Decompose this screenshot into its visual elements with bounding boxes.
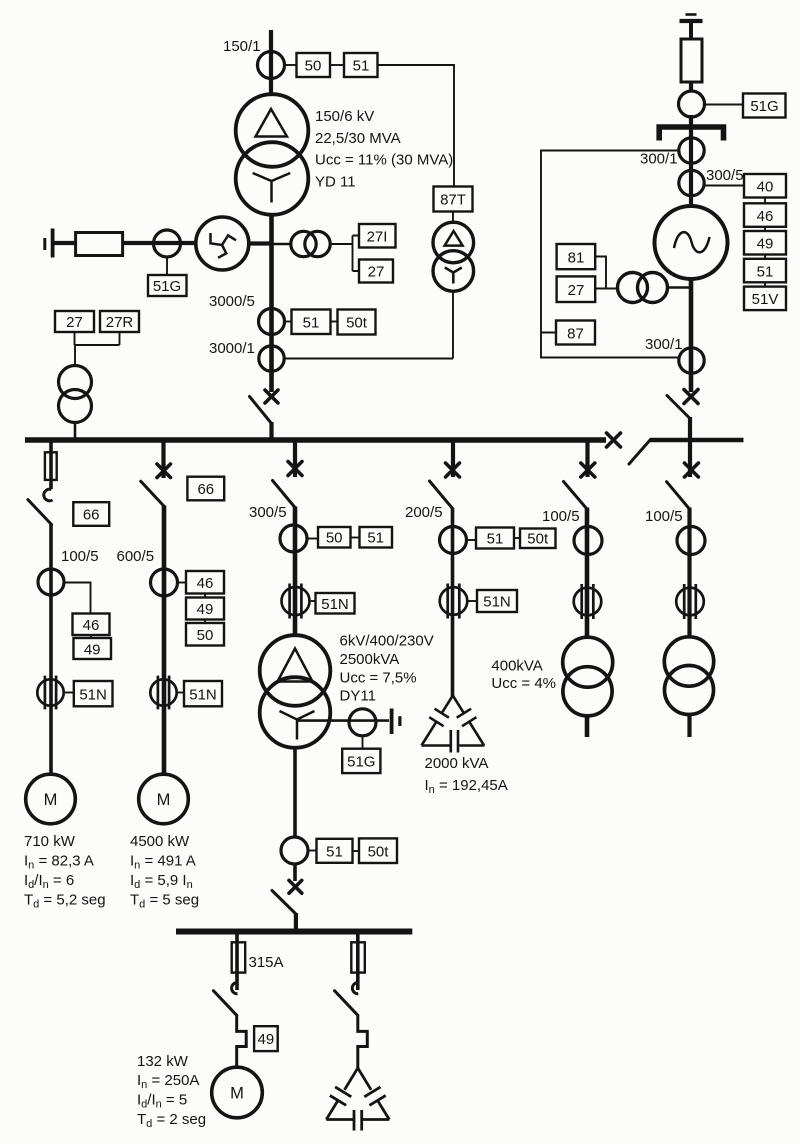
svg-text:2000 kVA: 2000 kVA (425, 755, 489, 772)
label motor M2 data (130, 833, 199, 911)
svg-text:132 kW: 132 kW (137, 1053, 189, 1070)
svg-text:27R: 27R (106, 314, 134, 331)
relay 46 feeder1 (73, 614, 110, 636)
wire 51 to 51V (764, 282, 766, 286)
CT generator neutral (679, 91, 705, 117)
svg-text:710 kW: 710 kW (24, 833, 76, 850)
motor M3 (212, 1067, 263, 1118)
breaker X generator (684, 390, 698, 404)
svg-text:Id = 5,9 In: Id = 5,9 In (130, 872, 193, 891)
svg-text:81: 81 (568, 250, 585, 267)
wire generator VT tap (667, 286, 691, 289)
svg-text:22,5/30 MVA: 22,5/30 MVA (315, 130, 401, 147)
svg-text:300/1: 300/1 (640, 151, 678, 168)
transformer T2 2500kVA (260, 635, 331, 748)
breaker X feeder4 (446, 463, 460, 477)
delta winding T2 (278, 649, 313, 682)
CT feeder3 lower (281, 837, 308, 864)
wire to breaker X lower (293, 864, 297, 881)
wire feeder1 from busbar through fuse (49, 441, 53, 489)
svg-text:Ucc = 4%: Ucc = 4% (491, 675, 556, 692)
label T3 data (491, 658, 556, 693)
CT feeder1 (38, 569, 64, 595)
svg-text:Ucc = 11% (30 MVA): Ucc = 11% (30 MVA) (315, 152, 453, 169)
wire blade to busbar2 (294, 913, 298, 930)
relay 87T (434, 187, 473, 212)
relay 49 feeder2 (186, 598, 224, 620)
svg-text:100/5: 100/5 (645, 508, 683, 525)
svg-text:50: 50 (326, 530, 343, 547)
svg-text:In = 491 A: In = 491 A (130, 853, 196, 872)
CT 300/1 gen breaker (679, 348, 704, 373)
relay 51N feeder2 (184, 681, 222, 706)
wire feeder6 to transformer T4 (687, 508, 691, 738)
wire earthing transformer to main (249, 241, 271, 245)
svg-text:M: M (157, 791, 171, 809)
motor M1 (26, 774, 76, 824)
wire feeder3 to transformer T2 (293, 507, 298, 638)
ground T2 neutral (392, 709, 400, 735)
CT feeder4 (440, 527, 467, 554)
relay 27 bus (55, 311, 94, 332)
relay 51G T2 (342, 749, 380, 773)
relay 81 (557, 244, 596, 269)
wire feeder4 to capacitor (451, 508, 455, 697)
relay 50t lower (359, 838, 397, 863)
wire resistor to earthing transformer (122, 241, 200, 245)
breaker X feeder2 (157, 464, 171, 478)
relay 50 feeder2 (186, 623, 224, 646)
wire feeder2 to motor (162, 506, 167, 776)
svg-text:2500kVA: 2500kVA (340, 651, 400, 668)
zero sequence CT feeder5 (574, 584, 602, 619)
svg-text:40: 40 (757, 179, 774, 196)
wire feeder3 stub (293, 441, 297, 477)
svg-text:51: 51 (326, 844, 343, 861)
wire feeder4 stub (451, 441, 455, 477)
wire to relay 51N feeder3 (310, 600, 316, 602)
svg-text:46: 46 (83, 617, 100, 634)
disconnect blade feederB (335, 991, 358, 1016)
svg-text:YD 11: YD 11 (315, 174, 356, 191)
ground neutral resistor (45, 229, 53, 258)
wire CT to relay 46 feeder2 (178, 582, 187, 584)
label T1 data (315, 108, 453, 191)
relay 51G generator (743, 94, 786, 118)
relay 49 feederA (254, 1026, 278, 1051)
svg-text:49: 49 (197, 601, 214, 618)
label motor M1 data (24, 833, 106, 911)
breaker X feeder3 (288, 462, 302, 476)
label motor M3 data (137, 1053, 206, 1130)
svg-text:51V: 51V (752, 291, 779, 308)
svg-text:6kV/400/230V: 6kV/400/230V (340, 633, 434, 650)
svg-text:50t: 50t (527, 531, 549, 548)
delta winding aux (445, 231, 463, 246)
zero sequence CT feeder4 (440, 584, 468, 619)
CT T2 neutral (349, 709, 376, 736)
relay 51N feeder3 (316, 593, 355, 614)
relay 51 gen (744, 259, 786, 283)
svg-text:51: 51 (353, 58, 370, 75)
wire feeder1 to motor (49, 524, 53, 776)
svg-text:51N: 51N (79, 687, 107, 704)
svg-text:51: 51 (757, 263, 774, 280)
svg-text:87T: 87T (440, 192, 466, 209)
transformer T1 150/6 kV (236, 94, 309, 215)
svg-text:46: 46 (757, 208, 774, 225)
svg-text:51: 51 (367, 530, 384, 547)
relay 51 (344, 53, 378, 77)
relay 51N feeder4 (477, 590, 517, 612)
wire ground to resistor (54, 241, 78, 245)
wire CT to relay 40 (704, 185, 744, 187)
VT generator pair (618, 273, 668, 303)
svg-text:27: 27 (66, 314, 83, 331)
svg-text:51G: 51G (347, 754, 375, 771)
svg-text:400kVA: 400kVA (491, 658, 542, 675)
svg-text:DY11: DY11 (340, 688, 376, 705)
disconnect blade lower (272, 891, 296, 915)
bracket generator neutral bar (659, 127, 723, 141)
auxiliary transformer 87T (433, 222, 474, 291)
relay 51 incomer (292, 310, 331, 335)
disconnect blade feeder4 (430, 481, 453, 509)
transformer T4 (664, 637, 713, 715)
bus tie blade open (629, 440, 651, 465)
wire blade to right busbar (688, 417, 692, 438)
wire CT to relay 51G (166, 257, 168, 275)
svg-text:In = 192,45A: In = 192,45A (425, 777, 508, 796)
wire CT to relay 51G gen (705, 104, 744, 106)
bus tie X (607, 433, 621, 447)
wire 51 to 50t lower (353, 850, 360, 852)
svg-text:600/5: 600/5 (117, 548, 155, 565)
wire to relay 51N feeder4 (467, 600, 477, 602)
svg-text:200/5: 200/5 (405, 504, 443, 521)
svg-text:87: 87 (567, 326, 584, 343)
svg-text:4500 kW: 4500 kW (130, 833, 190, 850)
busbar 6kV left section (25, 437, 606, 443)
svg-text:50: 50 (197, 627, 214, 644)
wire bottom feederA through fuse (235, 935, 239, 991)
svg-text:3000/5: 3000/5 (209, 293, 255, 310)
generator G (655, 206, 728, 279)
CT feeder2 (151, 569, 178, 596)
resistor generator neutral (681, 39, 702, 82)
wire feeder5 to transformer T3 (585, 508, 590, 738)
wire and thermal element feederB (358, 1015, 368, 1069)
wire 51 to 50t feeder4 (514, 537, 520, 539)
svg-text:300/1: 300/1 (645, 336, 683, 353)
hook contact feeder1 (44, 489, 53, 501)
disconnect blade feeder1 (28, 500, 52, 525)
capacitor bank delta 2000kVA (422, 696, 485, 753)
relay 50 (297, 53, 331, 77)
VT 6kV pair (291, 231, 330, 256)
wire relay 51 to 87T zone (378, 65, 455, 187)
wire 50 to 51 feeder3 (351, 537, 360, 539)
wire CT to relay 50 (285, 64, 297, 66)
svg-text:150/1: 150/1 (223, 38, 261, 55)
wire main to VT 6kV (273, 243, 292, 246)
transformer T3 400kVA (563, 637, 613, 716)
zero sequence CT feeder2 (150, 676, 176, 710)
svg-text:M: M (44, 791, 58, 809)
wire incoming 150kV line (269, 30, 273, 96)
CT 150/1 (258, 52, 285, 79)
svg-text:3000/1: 3000/1 (209, 340, 255, 357)
motor M2 (139, 774, 189, 824)
svg-text:51N: 51N (483, 594, 511, 611)
svg-text:50: 50 (305, 58, 322, 75)
svg-text:315A: 315A (249, 954, 284, 971)
zero sequence CT feeder3 (282, 584, 310, 619)
svg-text:In = 250A: In = 250A (137, 1072, 199, 1091)
svg-text:In = 82,3 A: In = 82,3 A (24, 853, 94, 872)
breaker X feeder5 (581, 463, 595, 477)
breaker X lower (289, 880, 302, 893)
relay 51 feeder3 (360, 527, 393, 548)
wire resistor to CT (689, 82, 693, 92)
busbar 6kV right section (650, 438, 744, 443)
relay 66 feeder2 (187, 477, 224, 501)
fuse feederB (351, 942, 365, 972)
wire CT to relay 51G T2 (362, 736, 364, 749)
wye winding T1 (253, 173, 291, 203)
relay 50t feeder4 (520, 529, 556, 549)
wire 49 to 51 (764, 255, 766, 259)
wire bottom feederB through fuse (356, 935, 360, 991)
fuse feeder1 (45, 452, 57, 480)
svg-text:66: 66 (197, 481, 214, 498)
svg-text:100/5: 100/5 (61, 548, 99, 565)
wye winding aux (445, 268, 462, 284)
zero sequence CT feeder6 (676, 584, 704, 619)
relay 49 feeder1 (74, 638, 112, 659)
wire CT 3000/1 to differential (284, 212, 453, 359)
relay 50t incomer (338, 310, 376, 335)
relay 51G (148, 275, 187, 296)
disconnect blade main incomer (250, 397, 272, 424)
relay 50 feeder3 (318, 527, 351, 548)
wire neutral to generator (689, 115, 693, 208)
svg-text:51: 51 (487, 531, 504, 548)
relay 49 gen (744, 231, 786, 255)
wire VT to relay 27 gen (596, 288, 618, 290)
label capacitor 2000kVA data (425, 755, 508, 796)
CT feeder5 (574, 527, 602, 555)
wire feeder6 stub (688, 441, 692, 477)
wire VT to busbar (74, 422, 77, 438)
hook contact feederA (232, 983, 238, 994)
wire 49 to 50 feeder2 (204, 620, 206, 624)
disconnect blade feeder2 (141, 481, 165, 506)
disconnect blade feederA (213, 991, 236, 1016)
wire 46 to 49 (764, 227, 766, 231)
wire 46 to 49 feeder2 (204, 594, 206, 598)
wire CT to relay 50 feeder3 (307, 538, 318, 540)
breaker X feeder6 (684, 463, 698, 477)
relay 27 undervoltage (359, 260, 393, 283)
CT 300/5 gen (679, 170, 704, 195)
svg-text:51G: 51G (750, 98, 778, 115)
relay 27 gen (557, 276, 596, 302)
CT neutral (154, 230, 181, 257)
wire to relay 51N feeder1 (64, 692, 74, 694)
wire to relay 51N feeder2 (177, 692, 184, 694)
CT 3000/1 (259, 346, 284, 371)
disconnect blade feeder6 (667, 482, 689, 509)
relay 27R bus (100, 311, 139, 332)
CT 300/1 neutral (679, 138, 704, 163)
disconnect blade generator (667, 396, 690, 419)
resistor grounding (76, 233, 123, 256)
svg-text:Ucc = 7,5%: Ucc = 7,5% (340, 670, 417, 687)
hook contact feederB (352, 983, 358, 994)
svg-text:M: M (230, 1085, 244, 1103)
wire and thermal element feederA (237, 1015, 247, 1068)
CT feeder3 (280, 525, 307, 552)
svg-text:51: 51 (303, 315, 320, 332)
relay 51 feeder4 (476, 528, 514, 549)
wire relay 50 to relay 51 (330, 64, 344, 66)
svg-text:150/6 kV: 150/6 kV (315, 108, 374, 125)
label T2 data (340, 633, 434, 705)
svg-text:50t: 50t (368, 844, 390, 861)
svg-text:49: 49 (84, 642, 101, 659)
wire T2 to CT lower (293, 748, 297, 839)
svg-text:50t: 50t (346, 315, 368, 332)
delta winding T1 (256, 109, 288, 137)
svg-text:51N: 51N (321, 596, 349, 613)
wire CT to relay 51 (285, 321, 292, 323)
wye winding T2 (280, 711, 315, 740)
wire blade to busbar (269, 422, 273, 438)
wire T2 neutral to ground (297, 719, 389, 722)
wire 46 to 49 feeder1 (90, 635, 92, 638)
svg-text:51N: 51N (189, 687, 217, 704)
wire relays to bus VT (75, 332, 120, 366)
VT bus 6kV (59, 366, 92, 423)
svg-text:300/5: 300/5 (706, 167, 744, 184)
CT 3000/5 (259, 309, 285, 335)
wire relay 51 to 50t (331, 321, 338, 323)
svg-text:46: 46 (197, 575, 214, 592)
svg-text:49: 49 (757, 236, 774, 253)
fuse 315A feederA (232, 942, 246, 972)
CT feeder6 (677, 527, 705, 555)
disconnect blade feeder3 (273, 481, 296, 508)
busbar 400V (176, 929, 412, 935)
relay 51V gen (744, 287, 786, 311)
svg-text:49: 49 (258, 1031, 275, 1048)
wire CT to relay 51 feeder4 (467, 539, 477, 541)
svg-text:27: 27 (568, 282, 585, 299)
relay 40 (744, 174, 786, 198)
wire CT to relays 46 49 (64, 583, 91, 614)
svg-text:51G: 51G (153, 278, 181, 295)
wire feeder2 stub (161, 441, 165, 478)
svg-text:66: 66 (83, 507, 100, 524)
svg-text:27I: 27I (367, 229, 388, 246)
svg-text:100/5: 100/5 (542, 508, 580, 525)
svg-text:27: 27 (368, 264, 385, 281)
breaker X main incomer (265, 390, 278, 403)
wire T1 to breaker (269, 213, 274, 392)
wire CT to relay 51 lower (308, 850, 317, 852)
earthing transformer zigzag (196, 217, 249, 270)
wire differential zone gen (541, 151, 680, 358)
relay 46 gen (744, 203, 786, 227)
zero sequence CT feeder1 (37, 676, 63, 710)
wire 40 to 46 (764, 198, 766, 204)
wire relay 81 connector (595, 257, 606, 289)
wire VT to relays 27I 27 (330, 236, 359, 272)
ground generator neutral (680, 15, 703, 40)
relay 51N feeder1 (74, 681, 113, 706)
wire feeder5 stub (585, 441, 589, 477)
relay 66 feeder1 (73, 502, 109, 526)
relay 87 gen (556, 321, 595, 345)
wire generator to breaker (689, 279, 694, 392)
capacitor bank delta 400V (326, 1068, 389, 1131)
svg-text:300/5: 300/5 (249, 504, 287, 521)
relay 51 lower (317, 839, 353, 863)
disconnect blade feeder5 (564, 482, 587, 509)
relay 46 feeder2 (186, 571, 224, 594)
relay 27I (359, 224, 396, 248)
